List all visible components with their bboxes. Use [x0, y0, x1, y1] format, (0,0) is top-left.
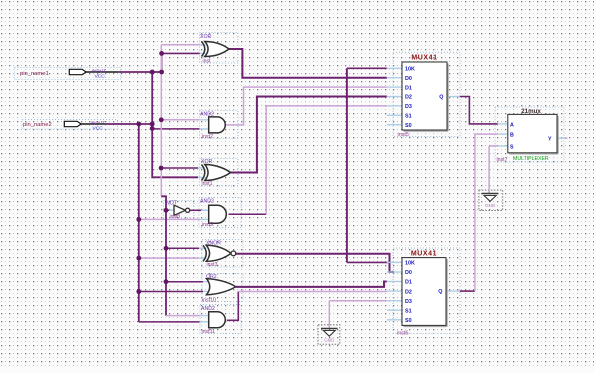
svg-text:inst7: inst7 [497, 157, 508, 163]
svg-text:inst6: inst6 [397, 330, 408, 336]
svg-text:MUX41: MUX41 [411, 250, 437, 257]
svg-text:D1: D1 [405, 280, 412, 286]
svg-text:D3: D3 [405, 104, 412, 110]
svg-text:inst11: inst11 [202, 329, 216, 335]
svg-text:10K: 10K [405, 261, 415, 267]
svg-text:D1: D1 [405, 85, 412, 91]
svg-text:Q: Q [438, 289, 442, 295]
svg-text:inst3: inst3 [207, 262, 218, 268]
svg-text:inst5: inst5 [398, 132, 409, 138]
svg-text:S: S [510, 144, 514, 150]
svg-text:AND2: AND2 [200, 198, 214, 204]
svg-text:inst10: inst10 [202, 297, 216, 303]
svg-text:10K: 10K [405, 67, 415, 73]
svg-text:inst2: inst2 [202, 134, 213, 140]
svg-text:AND2: AND2 [201, 306, 215, 312]
svg-text:GND: GND [485, 203, 496, 208]
svg-text:VCC: VCC [93, 125, 104, 131]
svg-text:XNOR: XNOR [206, 240, 221, 246]
svg-text:D2: D2 [405, 289, 412, 295]
svg-text:GND: GND [324, 338, 335, 343]
svg-text:S0: S0 [405, 123, 412, 129]
svg-text:inst1: inst1 [202, 181, 213, 187]
svg-text:21mux: 21mux [521, 108, 541, 115]
svg-text:inst9: inst9 [202, 222, 213, 228]
svg-text:MUX41: MUX41 [411, 55, 437, 62]
svg-text:XOR: XOR [200, 34, 211, 40]
svg-text:VCC: VCC [95, 73, 106, 79]
svg-text:S1: S1 [405, 114, 412, 120]
svg-text:Y: Y [548, 136, 552, 142]
svg-text:pin_name1: pin_name1 [20, 71, 49, 77]
svg-text:inst8: inst8 [170, 214, 181, 220]
svg-text:D0: D0 [405, 76, 412, 82]
svg-text:MULTIPLEXER: MULTIPLEXER [513, 156, 549, 162]
svg-text:D0: D0 [405, 270, 412, 276]
svg-text:OR2: OR2 [206, 274, 217, 280]
svg-text:pin_name2: pin_name2 [23, 122, 52, 128]
svg-text:B: B [510, 133, 514, 139]
svg-text:A: A [510, 122, 514, 128]
svg-text:Q: Q [439, 95, 443, 101]
svg-text:S0: S0 [405, 318, 412, 324]
svg-text:XOR: XOR [201, 159, 212, 165]
svg-text:inst: inst [203, 58, 212, 64]
svg-text:NOT: NOT [166, 201, 178, 207]
svg-text:S1: S1 [405, 308, 412, 314]
svg-text:D3: D3 [405, 299, 412, 305]
svg-text:AND2: AND2 [200, 111, 214, 117]
svg-text:D2: D2 [405, 95, 412, 101]
